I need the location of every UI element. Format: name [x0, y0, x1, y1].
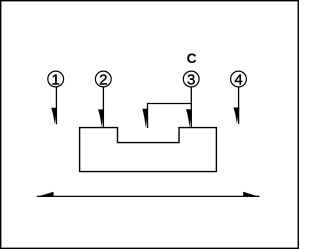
- grooved profile body: [80, 128, 217, 172]
- dimension half-arrowhead left: [37, 192, 54, 197]
- balloon 2: [95, 71, 111, 88]
- leader arrow 2: [98, 87, 104, 127]
- balloon 3: [183, 71, 199, 88]
- leader arrow 3 (branch, to groove): [142, 103, 191, 128]
- svg-text:1: 1: [52, 71, 60, 88]
- leader arrow 4: [233, 87, 239, 124]
- balloon 4: [231, 71, 247, 88]
- dimension line: [37, 195, 260, 197]
- svg-text:4: 4: [234, 71, 242, 88]
- dimension half-arrowhead right: [243, 192, 259, 197]
- leader arrow 1: [51, 87, 57, 124]
- svg-text:2: 2: [99, 71, 107, 88]
- svg-text:C: C: [187, 51, 197, 66]
- leader arrow 3 (main, to right land surface): [186, 87, 192, 127]
- svg-text:3: 3: [187, 71, 195, 88]
- balloon 1: [48, 71, 64, 88]
